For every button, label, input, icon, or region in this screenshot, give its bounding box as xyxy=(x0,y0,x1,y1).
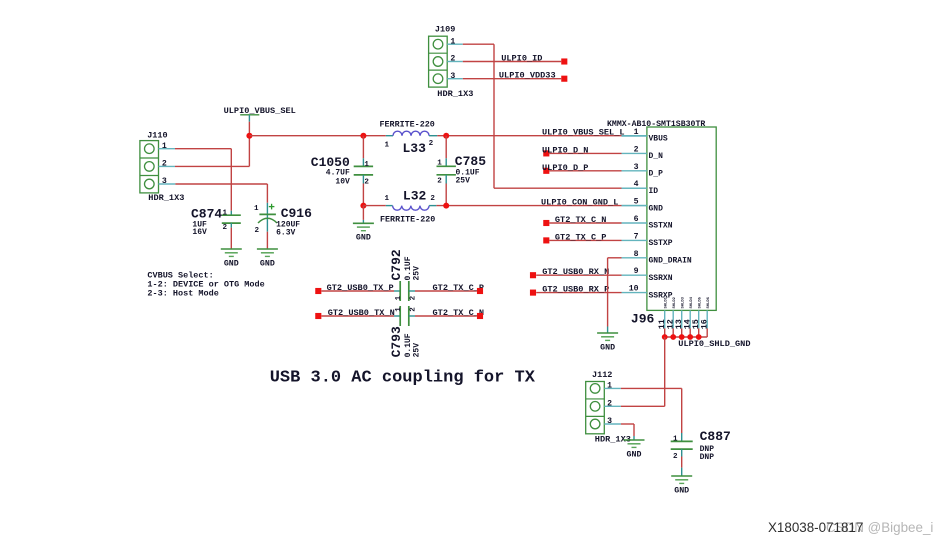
svg-text:GT2_USB0_RX_P: GT2_USB0_RX_P xyxy=(542,285,609,295)
svg-text:2: 2 xyxy=(607,399,612,408)
port square ULPI0_VDD33 xyxy=(561,76,567,82)
capacitor C1050 xyxy=(354,136,373,206)
wire J112 pin1 to C887 xyxy=(604,388,681,433)
svg-text:1: 1 xyxy=(395,307,403,312)
net label ULPI0_VBUS_SEL xyxy=(224,106,296,116)
capacitor C887 xyxy=(671,433,693,476)
svg-text:HDR_1X3: HDR_1X3 xyxy=(437,89,473,99)
svg-text:SHLD3: SHLD3 xyxy=(682,296,686,308)
svg-text:1: 1 xyxy=(385,141,390,149)
pin numbers C916 xyxy=(254,205,260,235)
svg-text:C792: C792 xyxy=(389,249,404,280)
pin numbers C1050 xyxy=(364,161,369,187)
svg-text:3: 3 xyxy=(607,417,612,426)
net label ULPI0_D_N xyxy=(542,145,588,155)
net label ULPI0_VBUS_SEL_L xyxy=(542,128,625,138)
net label ULPI0_SHLD_GND xyxy=(678,339,750,349)
net label GT2_TX_C_N (pin6) xyxy=(555,215,607,225)
wire GND_DRAIN pin8 to ground xyxy=(608,258,622,333)
ground below C874 xyxy=(221,249,242,268)
svg-text:1: 1 xyxy=(437,160,442,168)
capacitor C793 xyxy=(400,306,409,326)
svg-text:VBUS: VBUS xyxy=(649,135,668,144)
svg-text:GND: GND xyxy=(674,486,689,495)
value C793 0.1UF 25V (rotated) xyxy=(404,333,422,357)
svg-text:J112: J112 xyxy=(592,370,612,380)
ground below C916 xyxy=(257,249,278,268)
svg-text:2: 2 xyxy=(673,453,678,461)
net label GT2_USB0_RX_P (pin10) xyxy=(542,285,609,295)
svg-text:GND_DRAIN: GND_DRAIN xyxy=(649,257,692,266)
designator J96 xyxy=(631,312,655,327)
wire ULPI0_D_P to pin3 xyxy=(543,168,621,174)
svg-text:C793: C793 xyxy=(389,326,404,357)
J96 shield pins 11-16 stubs xyxy=(665,310,708,337)
svg-text:25V: 25V xyxy=(412,343,421,358)
net label GT2_USB0_RX_N (pin9) xyxy=(542,267,609,277)
designator C874 xyxy=(191,206,222,221)
svg-text:4.7UF: 4.7UF xyxy=(326,169,350,178)
wire ULPI0_CON_GND_L rail xyxy=(363,205,647,207)
net label ULPI0_VDD33 xyxy=(499,71,556,81)
svg-text:J96: J96 xyxy=(631,312,655,327)
pin numbers C887 xyxy=(673,435,678,460)
ground below C887 xyxy=(671,476,692,495)
net label ULPI0_CON_GND_L xyxy=(541,198,618,208)
connector J96 KMMX-AB10-SMT1SB30TR xyxy=(647,127,716,310)
svg-text:SSRXN: SSRXN xyxy=(649,274,673,283)
wire GT2_USB0_RX_N to pin9 xyxy=(530,272,622,278)
svg-text:2: 2 xyxy=(450,55,455,64)
wire GT2_TX_C_P to pin7 xyxy=(543,237,621,243)
svg-text:GT2_TX_C_N: GT2_TX_C_N xyxy=(555,215,607,225)
designator C785 xyxy=(455,154,486,169)
wire ULPI0_D_N to pin2 xyxy=(543,150,621,156)
connector J110 (HDR_1X3) xyxy=(140,130,185,203)
svg-text:USB 3.0 AC coupling for TX: USB 3.0 AC coupling for TX xyxy=(270,368,536,387)
J96 shield pin numbers 11-16 xyxy=(657,319,710,329)
svg-text:HDR_1X3: HDR_1X3 xyxy=(148,193,184,203)
wire ULPI0_SHLD_GND bus xyxy=(665,336,708,338)
svg-text:D_P: D_P xyxy=(649,170,664,179)
wire GT2_USB0_TX_N to C793 xyxy=(322,315,401,317)
svg-text:2: 2 xyxy=(162,160,167,169)
svg-text:L33: L33 xyxy=(403,141,427,156)
svg-text:1: 1 xyxy=(254,205,259,213)
svg-text:GT2_TX_C_N: GT2_TX_C_N xyxy=(433,308,485,318)
svg-text:C785: C785 xyxy=(455,154,486,169)
designator L32 xyxy=(403,189,427,204)
label KMMX-AB10-SMT1SB30TR xyxy=(607,120,705,129)
svg-text:SHLD2: SHLD2 xyxy=(673,296,677,308)
capacitor C785 xyxy=(437,136,456,206)
svg-text:L32: L32 xyxy=(403,189,427,204)
svg-text:ULPI0_ID: ULPI0_ID xyxy=(501,54,542,64)
pin numbers L32 xyxy=(385,195,436,203)
note CVBUS Select xyxy=(147,270,264,298)
junction L32 right / C785 bottom xyxy=(443,203,449,209)
svg-text:GND: GND xyxy=(600,343,615,352)
designator C916 xyxy=(281,206,312,221)
svg-text:D_N: D_N xyxy=(649,152,664,161)
svg-text:1: 1 xyxy=(607,382,612,391)
net stub ULPI0_VBUS_SEL xyxy=(240,115,259,136)
value DNP DNP xyxy=(700,445,715,462)
svg-text:GT2_USB0_TX_N: GT2_USB0_TX_N xyxy=(328,308,395,318)
junction VBUS_SEL node xyxy=(246,133,252,139)
svg-text:SSTXP: SSTXP xyxy=(649,239,673,248)
svg-text:10V: 10V xyxy=(335,177,350,186)
ground below J112 pin3 xyxy=(624,440,645,459)
pin numbers C874 xyxy=(222,210,227,232)
svg-text:3: 3 xyxy=(450,72,455,81)
wire J110 pin1 to C874 xyxy=(159,149,232,211)
port square GT2_USB0_TX_N xyxy=(315,313,321,319)
svg-text:ULPI0_CON_GND_L: ULPI0_CON_GND_L xyxy=(541,198,618,208)
svg-text:6.3V: 6.3V xyxy=(276,228,295,237)
wire J112 pin2 to shield bus xyxy=(604,405,664,407)
svg-text:25V: 25V xyxy=(412,266,421,281)
wire GT2_USB0_TX_P to C792 xyxy=(322,290,401,292)
svg-text:SSTXN: SSTXN xyxy=(649,222,673,231)
svg-text:3: 3 xyxy=(162,177,167,186)
junction L32 left / C1050 bottom xyxy=(360,203,366,209)
J96 pin numbers 1-10 xyxy=(629,128,639,294)
svg-text:25V: 25V xyxy=(456,176,471,185)
capacitor C874 xyxy=(222,211,241,249)
svg-text:SHLD5: SHLD5 xyxy=(699,296,703,308)
net label GT2_TX_C_P (right) xyxy=(433,283,485,293)
wire C792 to GT2_TX_C_P xyxy=(409,290,477,292)
svg-text:C874: C874 xyxy=(191,206,222,221)
svg-text:ULPI0_D_P: ULPI0_D_P xyxy=(542,163,588,173)
svg-text:2: 2 xyxy=(429,140,434,148)
net label GT2_USB0_TX_N xyxy=(328,308,395,318)
label FERRITE-220 (L32) xyxy=(380,214,435,224)
wire J110 pin3 to C916 xyxy=(159,184,268,203)
svg-text:2: 2 xyxy=(410,307,418,312)
svg-text:2: 2 xyxy=(437,177,442,185)
inductor L33 FERRITE-220 xyxy=(386,131,437,136)
svg-text:2-3: Host Mode: 2-3: Host Mode xyxy=(147,289,218,299)
designator C793 (rotated) xyxy=(389,326,404,357)
svg-text:SHLD6: SHLD6 xyxy=(707,296,711,308)
net label GT2_TX_C_N (right) xyxy=(433,308,485,318)
J96 pin names xyxy=(649,135,692,301)
wire main ULPI0_VBUS_SEL_L rail xyxy=(249,135,647,137)
svg-text:1: 1 xyxy=(364,161,369,169)
svg-text:DNP: DNP xyxy=(700,453,715,462)
wire GT2_TX_C_N to pin6 xyxy=(543,220,621,226)
watermark CSDN @Bigbee_i xyxy=(826,520,933,535)
svg-text:ID: ID xyxy=(649,187,659,196)
plus sign C916 xyxy=(269,204,275,210)
watermark X18038-071817 xyxy=(768,520,863,535)
svg-text:1: 1 xyxy=(162,142,167,151)
label FERRITE-220 (L33) xyxy=(380,120,435,130)
title USB 3.0 AC coupling for TX xyxy=(270,368,536,387)
wire J110 pin2 to VBUS_SEL junction xyxy=(159,136,250,167)
junctions shield pins xyxy=(662,334,702,340)
svg-text:SSRXP: SSRXP xyxy=(649,291,673,300)
connector J112 (HDR_1X3) xyxy=(586,370,631,444)
svg-text:GND: GND xyxy=(356,234,371,243)
pin numbers C793 (rotated) xyxy=(395,307,418,312)
svg-text:GND: GND xyxy=(224,259,239,268)
capacitor C916 polarized xyxy=(258,203,277,249)
value C792 0.1UF 25V (rotated) xyxy=(404,256,422,280)
svg-text:GT2_USB0_TX_P: GT2_USB0_TX_P xyxy=(327,283,394,293)
svg-text:KMMX-AB10-SMT1SB30TR: KMMX-AB10-SMT1SB30TR xyxy=(607,120,705,129)
svg-text:1: 1 xyxy=(673,435,678,443)
svg-text:FERRITE-220: FERRITE-220 xyxy=(380,120,435,130)
svg-text:C1050: C1050 xyxy=(311,155,350,170)
svg-text:1: 1 xyxy=(222,210,227,218)
connector J109 (HDR_1X3) xyxy=(429,25,474,99)
svg-text:1: 1 xyxy=(395,295,403,300)
svg-text:16V: 16V xyxy=(192,228,207,237)
svg-text:GT2_TX_C_P: GT2_TX_C_P xyxy=(555,232,607,242)
wire shield bus down to J112 pin2 xyxy=(664,337,666,406)
value 1UF 16V xyxy=(192,221,207,238)
svg-text:SHLD1: SHLD1 xyxy=(665,296,669,308)
svg-text:2: 2 xyxy=(255,227,260,235)
svg-text:2: 2 xyxy=(364,178,369,186)
designator C1050 xyxy=(311,155,350,170)
svg-text:GND: GND xyxy=(627,450,642,459)
svg-text:ULPI0_VDD33: ULPI0_VDD33 xyxy=(499,71,556,81)
wire C793 to GT2_TX_C_N xyxy=(409,315,477,317)
port square GT2_TX_C_N xyxy=(477,313,483,319)
net label GT2_USB0_TX_P xyxy=(327,283,394,293)
value 120UF 6.3V xyxy=(276,221,300,238)
svg-text:GT2_TX_C_P: GT2_TX_C_P xyxy=(433,283,485,293)
inductor L32 FERRITE-220 xyxy=(386,206,437,211)
svg-text:ULPI0_D_N: ULPI0_D_N xyxy=(542,145,588,155)
svg-text:GT2_USB0_RX_N: GT2_USB0_RX_N xyxy=(542,267,609,277)
svg-text:X18038-071817: X18038-071817 xyxy=(768,520,863,535)
ground below GND_DRAIN xyxy=(597,333,618,352)
port square ULPI0_ID xyxy=(561,58,567,64)
pin numbers C785 xyxy=(437,160,442,186)
svg-text:C916: C916 xyxy=(281,206,312,221)
svg-text:ULPI0_VBUS_SEL: ULPI0_VBUS_SEL xyxy=(224,106,296,116)
designator C887 xyxy=(700,429,731,444)
designator C792 (rotated) xyxy=(389,249,404,280)
svg-text:2: 2 xyxy=(410,295,418,300)
wire J109 pin2 ULPI0_ID xyxy=(447,61,561,63)
pin numbers C792 (rotated) xyxy=(395,295,418,300)
wire J109 pin3 ULPI0_VDD33 xyxy=(447,78,561,80)
svg-text:ULPI0_SHLD_GND: ULPI0_SHLD_GND xyxy=(678,339,750,349)
svg-text:SHLD4: SHLD4 xyxy=(690,296,694,308)
wire GT2_USB0_RX_P to pin10 xyxy=(530,290,622,296)
designator L33 xyxy=(403,141,427,156)
svg-text:2: 2 xyxy=(430,195,435,203)
svg-text:1: 1 xyxy=(385,195,390,203)
net label ULPI0_D_P xyxy=(542,163,588,173)
svg-text:1: 1 xyxy=(450,37,455,46)
value 0.1UF 25V xyxy=(456,168,480,185)
net label GT2_TX_C_P (pin7) xyxy=(555,232,607,242)
svg-text:GND: GND xyxy=(649,204,664,213)
wire J109 pin1 to J96 ID pin (net riser) xyxy=(447,44,647,188)
junction L33.2/C785 xyxy=(443,133,449,139)
svg-text:16: 16 xyxy=(700,319,710,329)
svg-text:GND: GND xyxy=(260,259,275,268)
svg-text:J109: J109 xyxy=(435,25,455,35)
value 4.7UF 10V xyxy=(326,169,350,187)
ground below C1050/L32 node xyxy=(353,206,374,243)
pin numbers L33 xyxy=(385,140,434,149)
J96 shield pin names (tiny) xyxy=(665,296,712,308)
svg-text:2: 2 xyxy=(223,224,228,232)
port square GT2_TX_C_P xyxy=(477,288,483,294)
port square GT2_USB0_TX_P xyxy=(315,288,321,294)
J96 pin stubs xyxy=(622,136,647,293)
svg-text:C887: C887 xyxy=(700,429,731,444)
wire J112 pin3 to ground xyxy=(604,424,634,440)
svg-text:FERRITE-220: FERRITE-220 xyxy=(380,214,435,224)
capacitor C792 xyxy=(400,281,409,301)
svg-text:ULPI0_VBUS_SEL_L: ULPI0_VBUS_SEL_L xyxy=(542,128,625,138)
net label ULPI0_ID xyxy=(501,54,542,64)
junction C1050 top xyxy=(360,133,366,139)
svg-text:J110: J110 xyxy=(147,130,167,140)
